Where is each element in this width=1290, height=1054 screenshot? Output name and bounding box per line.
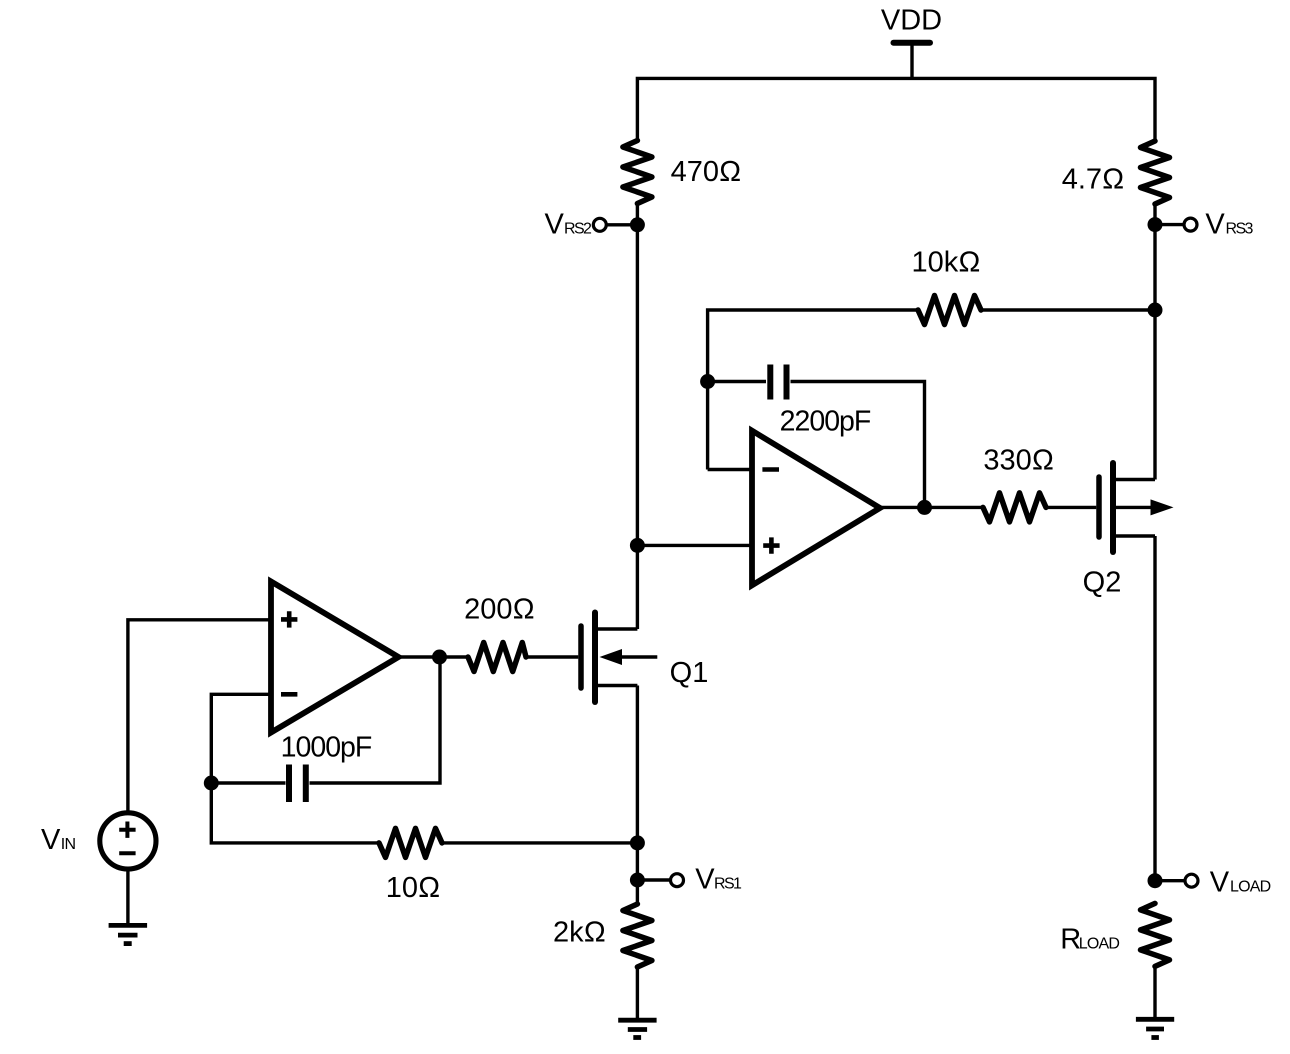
node 10k right dot: [1148, 303, 1163, 318]
svg-text:V: V: [1205, 209, 1225, 241]
resistor 4.7ohm: [1141, 141, 1170, 204]
wire 10k right segment: [981, 308, 1155, 311]
VDD supply bar: [894, 40, 931, 46]
svg-text:10kΩ: 10kΩ: [911, 247, 980, 279]
wire VIN to ground: [126, 872, 129, 924]
wire 10ohm right segment: [442, 841, 637, 844]
wire Q1 source down to 2k: [636, 686, 639, 905]
wire 330 to Q2 gate: [1046, 506, 1096, 509]
svg-text:V: V: [41, 824, 61, 856]
terminal VRS3: [1184, 218, 1197, 231]
ground middle: [618, 1020, 656, 1037]
node VLOAD dot: [1148, 873, 1163, 888]
wire 2k to ground: [636, 967, 639, 1018]
node U2 plus branch dot: [630, 538, 645, 553]
op-amp U2 minus sign: [762, 467, 779, 472]
transistor Q2: [1099, 463, 1174, 552]
svg-text:LOAD: LOAD: [1079, 936, 1120, 953]
svg-text:470Ω: 470Ω: [671, 156, 742, 188]
svg-text:VDD: VDD: [881, 5, 942, 37]
wire cap left lead: [708, 380, 766, 383]
node VRS3 dot: [1148, 217, 1163, 232]
wire VRS2 stub: [606, 223, 637, 226]
wire VLOAD stub: [1155, 879, 1185, 882]
node VRS2 dot: [630, 217, 645, 232]
svg-text:4.7Ω: 4.7Ω: [1062, 164, 1125, 196]
ground VIN: [109, 925, 148, 943]
resistor 10kohm: [918, 296, 981, 325]
wire 10ohm left segment up to cap junction: [211, 783, 379, 843]
svg-text:V: V: [545, 209, 565, 241]
wire op-amp U2 non-inverting input: [637, 544, 752, 547]
ground right: [1136, 1019, 1174, 1037]
resistor 10ohm: [379, 828, 442, 857]
node VRS1 dot: [630, 873, 645, 888]
node U1 output dot: [432, 650, 447, 665]
svg-text:IN: IN: [61, 836, 76, 853]
wire VRS1 stub: [637, 878, 671, 881]
wire cap 1000pF left lead: [211, 781, 285, 784]
source VIN: [100, 813, 156, 869]
resistor RLOAD: [1141, 903, 1170, 966]
wire op-amp U2 inverting input: [708, 468, 752, 471]
svg-text:200Ω: 200Ω: [464, 593, 535, 625]
wire RLOAD to ground: [1153, 966, 1156, 1017]
op-amp U2 plus sign: [763, 537, 779, 553]
terminal VRS1: [671, 874, 684, 887]
svg-text:V: V: [1210, 866, 1230, 898]
op-amp U1: [271, 582, 399, 733]
svg-text:1000pF: 1000pF: [281, 732, 372, 764]
wire cap right lead to op-amp output: [791, 382, 925, 508]
wire left vertical (470 to Q1 drain): [636, 204, 639, 630]
wire cap 1000pF right lead up to U1 output: [310, 657, 441, 783]
op-amp U1 plus sign: [281, 611, 297, 627]
wire top rail: [637, 78, 1155, 141]
svg-text:RS3: RS3: [1226, 221, 1254, 238]
wire Q2 source down to VLOAD: [1153, 536, 1156, 881]
svg-text:10Ω: 10Ω: [386, 872, 441, 904]
svg-text:Q1: Q1: [670, 657, 709, 689]
svg-text:330Ω: 330Ω: [983, 444, 1054, 476]
svg-text:LOAD: LOAD: [1230, 878, 1271, 895]
wire U1 inverting input: [211, 694, 271, 783]
wire U2 output: [880, 506, 983, 509]
wire right vertical (4.7 to Q2 drain): [1153, 204, 1156, 480]
capacitor 1000pF: [289, 765, 306, 803]
terminal VRS2: [593, 218, 606, 231]
resistor 330ohm: [983, 493, 1046, 522]
node cap junction dot: [700, 374, 715, 389]
transistor Q1: [581, 613, 657, 703]
svg-text:2200pF: 2200pF: [780, 406, 871, 438]
resistor 2kohm: [623, 904, 652, 967]
capacitor 2200pF: [770, 365, 786, 400]
terminal VLOAD: [1185, 874, 1198, 887]
node U2 output dot: [917, 500, 932, 515]
resistor 470ohm: [623, 141, 652, 204]
op-amp U2: [752, 431, 880, 586]
wire VDD stub: [910, 44, 913, 78]
svg-text:Q2: Q2: [1083, 567, 1122, 599]
svg-text:2kΩ: 2kΩ: [553, 917, 606, 949]
resistor 200ohm: [468, 643, 526, 672]
wire 10k left segment and down to cap node: [708, 310, 918, 470]
op-amp U1 minus sign: [281, 692, 297, 697]
wire VRS3 stub: [1155, 223, 1184, 226]
svg-text:V: V: [695, 864, 715, 896]
wire U1 output: [399, 655, 469, 658]
node 10ohm junction dot: [630, 835, 645, 850]
node 1000pF left junction dot: [204, 776, 219, 791]
svg-text:RS2: RS2: [564, 221, 592, 238]
svg-text:RS1: RS1: [714, 876, 742, 893]
wire 200 to Q1 gate: [526, 655, 578, 658]
wire VIN up and to U1 non-inverting input: [128, 620, 271, 811]
